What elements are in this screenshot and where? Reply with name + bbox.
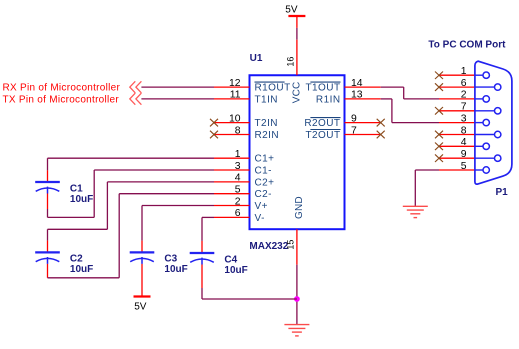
svg-text:C3: C3 xyxy=(164,254,177,265)
svg-text:10uF: 10uF xyxy=(164,264,187,275)
svg-text:P1: P1 xyxy=(496,187,509,198)
svg-text:14: 14 xyxy=(351,78,363,89)
svg-text:9: 9 xyxy=(351,113,357,124)
svg-text:R2OUT: R2OUT xyxy=(304,118,340,129)
svg-text:3: 3 xyxy=(235,161,241,172)
svg-text:C1-: C1- xyxy=(255,166,272,177)
svg-text:R1OUT: R1OUT xyxy=(255,83,291,94)
svg-text:R2IN: R2IN xyxy=(255,130,280,141)
svg-text:12: 12 xyxy=(229,78,241,89)
svg-text:10: 10 xyxy=(229,113,241,124)
svg-text:8: 8 xyxy=(235,125,241,136)
svg-text:9: 9 xyxy=(461,149,467,160)
svg-text:10uF: 10uF xyxy=(224,265,247,276)
svg-text:VCC: VCC xyxy=(292,82,303,104)
svg-text:11: 11 xyxy=(230,90,241,101)
svg-text:T2IN: T2IN xyxy=(255,118,278,129)
svg-text:C1: C1 xyxy=(70,183,83,194)
svg-text:5V: 5V xyxy=(134,301,147,312)
svg-text:T2OUT: T2OUT xyxy=(305,130,340,141)
svg-text:To PC COM Port: To PC COM Port xyxy=(428,39,506,50)
svg-text:1: 1 xyxy=(235,149,241,160)
svg-text:RX Pin of Microcontroller: RX Pin of Microcontroller xyxy=(3,83,121,94)
svg-text:10uF: 10uF xyxy=(70,264,93,275)
svg-text:4: 4 xyxy=(461,137,467,148)
svg-text:T1IN: T1IN xyxy=(255,94,278,105)
svg-text:7: 7 xyxy=(351,125,357,136)
svg-text:1: 1 xyxy=(461,66,467,77)
svg-text:2: 2 xyxy=(461,90,467,101)
svg-text:10uF: 10uF xyxy=(70,194,93,205)
svg-text:R1IN: R1IN xyxy=(316,94,341,105)
svg-text:GND: GND xyxy=(294,196,305,219)
svg-text:6: 6 xyxy=(235,208,241,219)
svg-text:C1+: C1+ xyxy=(255,154,275,165)
svg-text:C4: C4 xyxy=(224,254,237,265)
svg-text:C2: C2 xyxy=(70,254,83,265)
svg-text:6: 6 xyxy=(461,78,467,89)
svg-text:4: 4 xyxy=(235,173,241,184)
svg-text:V+: V+ xyxy=(255,201,268,212)
svg-text:16: 16 xyxy=(286,57,296,67)
svg-text:TX Pin of Microcontroller: TX Pin of Microcontroller xyxy=(3,94,120,105)
svg-text:U1: U1 xyxy=(250,53,263,64)
svg-text:C2+: C2+ xyxy=(255,177,275,188)
svg-text:13: 13 xyxy=(351,90,363,101)
svg-text:5: 5 xyxy=(461,161,467,172)
svg-text:7: 7 xyxy=(461,102,467,113)
svg-text:C2-: C2- xyxy=(255,189,272,200)
svg-text:V-: V- xyxy=(255,213,265,224)
svg-text:5: 5 xyxy=(235,185,241,196)
svg-text:8: 8 xyxy=(461,125,467,136)
svg-text:3: 3 xyxy=(461,113,467,124)
svg-text:2: 2 xyxy=(235,196,241,207)
svg-text:15: 15 xyxy=(285,240,295,250)
svg-text:5V: 5V xyxy=(285,5,298,16)
svg-text:T1OUT: T1OUT xyxy=(305,83,340,94)
svg-text:MAX232: MAX232 xyxy=(249,241,288,252)
